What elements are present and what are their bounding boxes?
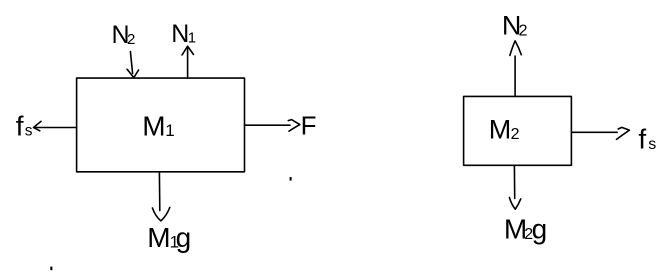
fs arrow right shaft xyxy=(571,131,617,133)
svg-text:M: M xyxy=(489,115,512,145)
stray dot bottom left xyxy=(50,267,52,271)
svg-text:f: f xyxy=(16,111,24,142)
wire fs arrow left shaft xyxy=(34,127,77,129)
svg-text:g: g xyxy=(532,214,548,245)
block M1 box xyxy=(77,78,245,172)
N2 arrowhead right xyxy=(510,41,521,56)
N2 arrowhead left xyxy=(127,69,139,77)
svg-text:2: 2 xyxy=(511,126,520,143)
N2 arrow left shaft xyxy=(130,52,132,74)
svg-text:2: 2 xyxy=(519,23,528,40)
N1 arrow shaft xyxy=(187,47,189,78)
svg-text:1: 1 xyxy=(165,121,174,140)
svg-text:f: f xyxy=(638,124,646,155)
M2g arrowhead xyxy=(509,198,520,210)
svg-text:1: 1 xyxy=(188,30,196,47)
fs arrowhead left xyxy=(34,121,41,130)
F arrowhead xyxy=(288,120,300,132)
N1 arrowhead xyxy=(182,46,194,55)
N2 arrow right shaft xyxy=(514,56,516,96)
F arrow shaft xyxy=(245,124,291,126)
svg-text:2: 2 xyxy=(127,31,135,48)
svg-text:s: s xyxy=(25,123,33,140)
M1g arrow shaft xyxy=(158,172,160,211)
svg-text:M: M xyxy=(142,111,165,142)
M1g arrowhead xyxy=(152,207,169,221)
svg-text:M: M xyxy=(147,222,170,253)
svg-text:N: N xyxy=(171,20,189,48)
M2g arrow shaft xyxy=(513,165,515,198)
svg-text:s: s xyxy=(648,136,656,153)
fs arrowhead right xyxy=(617,127,630,139)
block M2 box xyxy=(464,96,572,165)
stray dot middle xyxy=(290,177,292,181)
svg-text:F: F xyxy=(301,111,317,141)
svg-text:g: g xyxy=(176,222,192,253)
